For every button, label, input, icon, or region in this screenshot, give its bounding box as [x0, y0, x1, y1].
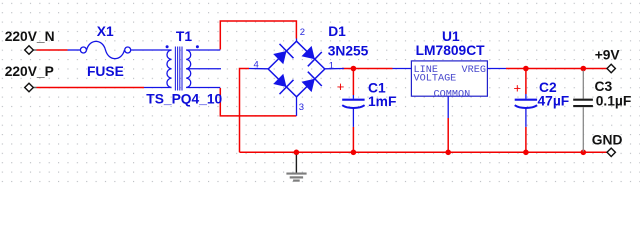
wire ground bottom rail	[240, 151, 608, 153]
capacitor C3	[573, 71, 631, 152]
secondary bottom pin	[186, 87, 220, 89]
svg-text:C1: C1	[368, 80, 386, 95]
wire transformer secondary top to bridge node 2	[220, 21, 296, 50]
svg-text:1mF: 1mF	[368, 94, 396, 109]
svg-text:1: 1	[329, 60, 334, 71]
svg-text:47µF: 47µF	[538, 94, 570, 109]
secondary top pin	[186, 49, 220, 51]
wire 220V_N to fuse	[37, 49, 68, 51]
svg-text:LM7809CT: LM7809CT	[416, 43, 486, 58]
wire bridge node 1 to U1 input	[342, 68, 393, 70]
node 1 stub	[325, 68, 344, 70]
secondary coil	[186, 50, 191, 88]
svg-text:COMMON: COMMON	[434, 89, 471, 100]
svg-text:X1: X1	[97, 24, 114, 39]
diode on edge 4-3	[273, 74, 286, 87]
diode on edge 4-2	[273, 51, 286, 64]
capacitor C2	[514, 80, 570, 127]
terminal 220V_N	[5, 29, 55, 54]
diamond outline	[268, 41, 325, 97]
wire U1 common to ground rail	[447, 118, 449, 152]
primary bottom pin	[144, 87, 172, 89]
svg-text:VREG: VREG	[462, 65, 486, 76]
junction node1/C1	[351, 66, 357, 72]
terminal GND	[592, 133, 623, 157]
svg-text:3: 3	[299, 102, 304, 113]
junction C1 bottom	[351, 150, 357, 156]
junction C3 bottom	[581, 150, 587, 156]
svg-text:C3: C3	[595, 79, 613, 94]
svg-text:2: 2	[300, 27, 305, 38]
diode on edge 2-1	[302, 46, 315, 59]
regulator U1	[393, 29, 507, 118]
junction U1 common bottom	[445, 150, 451, 156]
svg-text:220V_P: 220V_P	[5, 64, 54, 79]
transformer T1	[144, 29, 223, 106]
diode on edge 3-1	[302, 79, 315, 92]
ground	[286, 155, 306, 181]
svg-text:0.1µF: 0.1µF	[596, 94, 632, 109]
junction C2 top	[523, 66, 529, 72]
node 3 stub	[296, 97, 298, 116]
bridge rectifier D1	[249, 24, 369, 116]
U1 left pin	[393, 68, 412, 70]
node 4 stub	[249, 68, 268, 70]
svg-text:U1: U1	[442, 29, 460, 44]
svg-text:+: +	[514, 81, 522, 96]
wire transformer secondary bottom to bridge node 3	[220, 88, 296, 116]
wire C2 bottom branch	[525, 127, 527, 152]
svg-text:220V_N: 220V_N	[5, 29, 55, 44]
capacitor C1	[337, 79, 397, 127]
wire C1 bottom branch	[352, 127, 354, 152]
junction ground symbol	[294, 150, 300, 156]
terminal 220V_P	[5, 64, 54, 92]
wire U1 output to +9V	[506, 68, 607, 70]
node 2 stub	[296, 39, 298, 42]
svg-text:+: +	[337, 79, 345, 94]
U1 right pin	[487, 68, 506, 70]
svg-text:T1: T1	[176, 29, 192, 44]
secondary phase dot	[196, 45, 199, 48]
U1 common pin	[447, 96, 449, 118]
junction C2 bottom	[523, 150, 529, 156]
svg-text:D1: D1	[328, 24, 346, 39]
svg-text:+9V: +9V	[595, 48, 621, 63]
terminal +9V	[595, 48, 621, 73]
wire bridge node 4 to ground rail	[240, 69, 250, 153]
secondary center tap stub	[186, 68, 221, 70]
svg-text:3N255: 3N255	[328, 44, 369, 59]
wire 220V_P to transformer primary bottom	[37, 87, 145, 89]
primary coil	[167, 50, 172, 88]
transformer core	[174, 47, 176, 91]
junction C3 top	[581, 66, 587, 72]
svg-text:VOLTAGE: VOLTAGE	[414, 74, 457, 85]
svg-text:TS_PQ4_10: TS_PQ4_10	[146, 91, 222, 106]
wire C1 top branch	[352, 69, 354, 96]
fuse X1	[68, 24, 172, 79]
primary phase dot	[166, 45, 169, 48]
svg-text:4: 4	[254, 59, 259, 70]
svg-text:FUSE: FUSE	[87, 64, 124, 79]
svg-text:GND: GND	[592, 133, 623, 148]
wire C2 top branch	[525, 69, 527, 95]
